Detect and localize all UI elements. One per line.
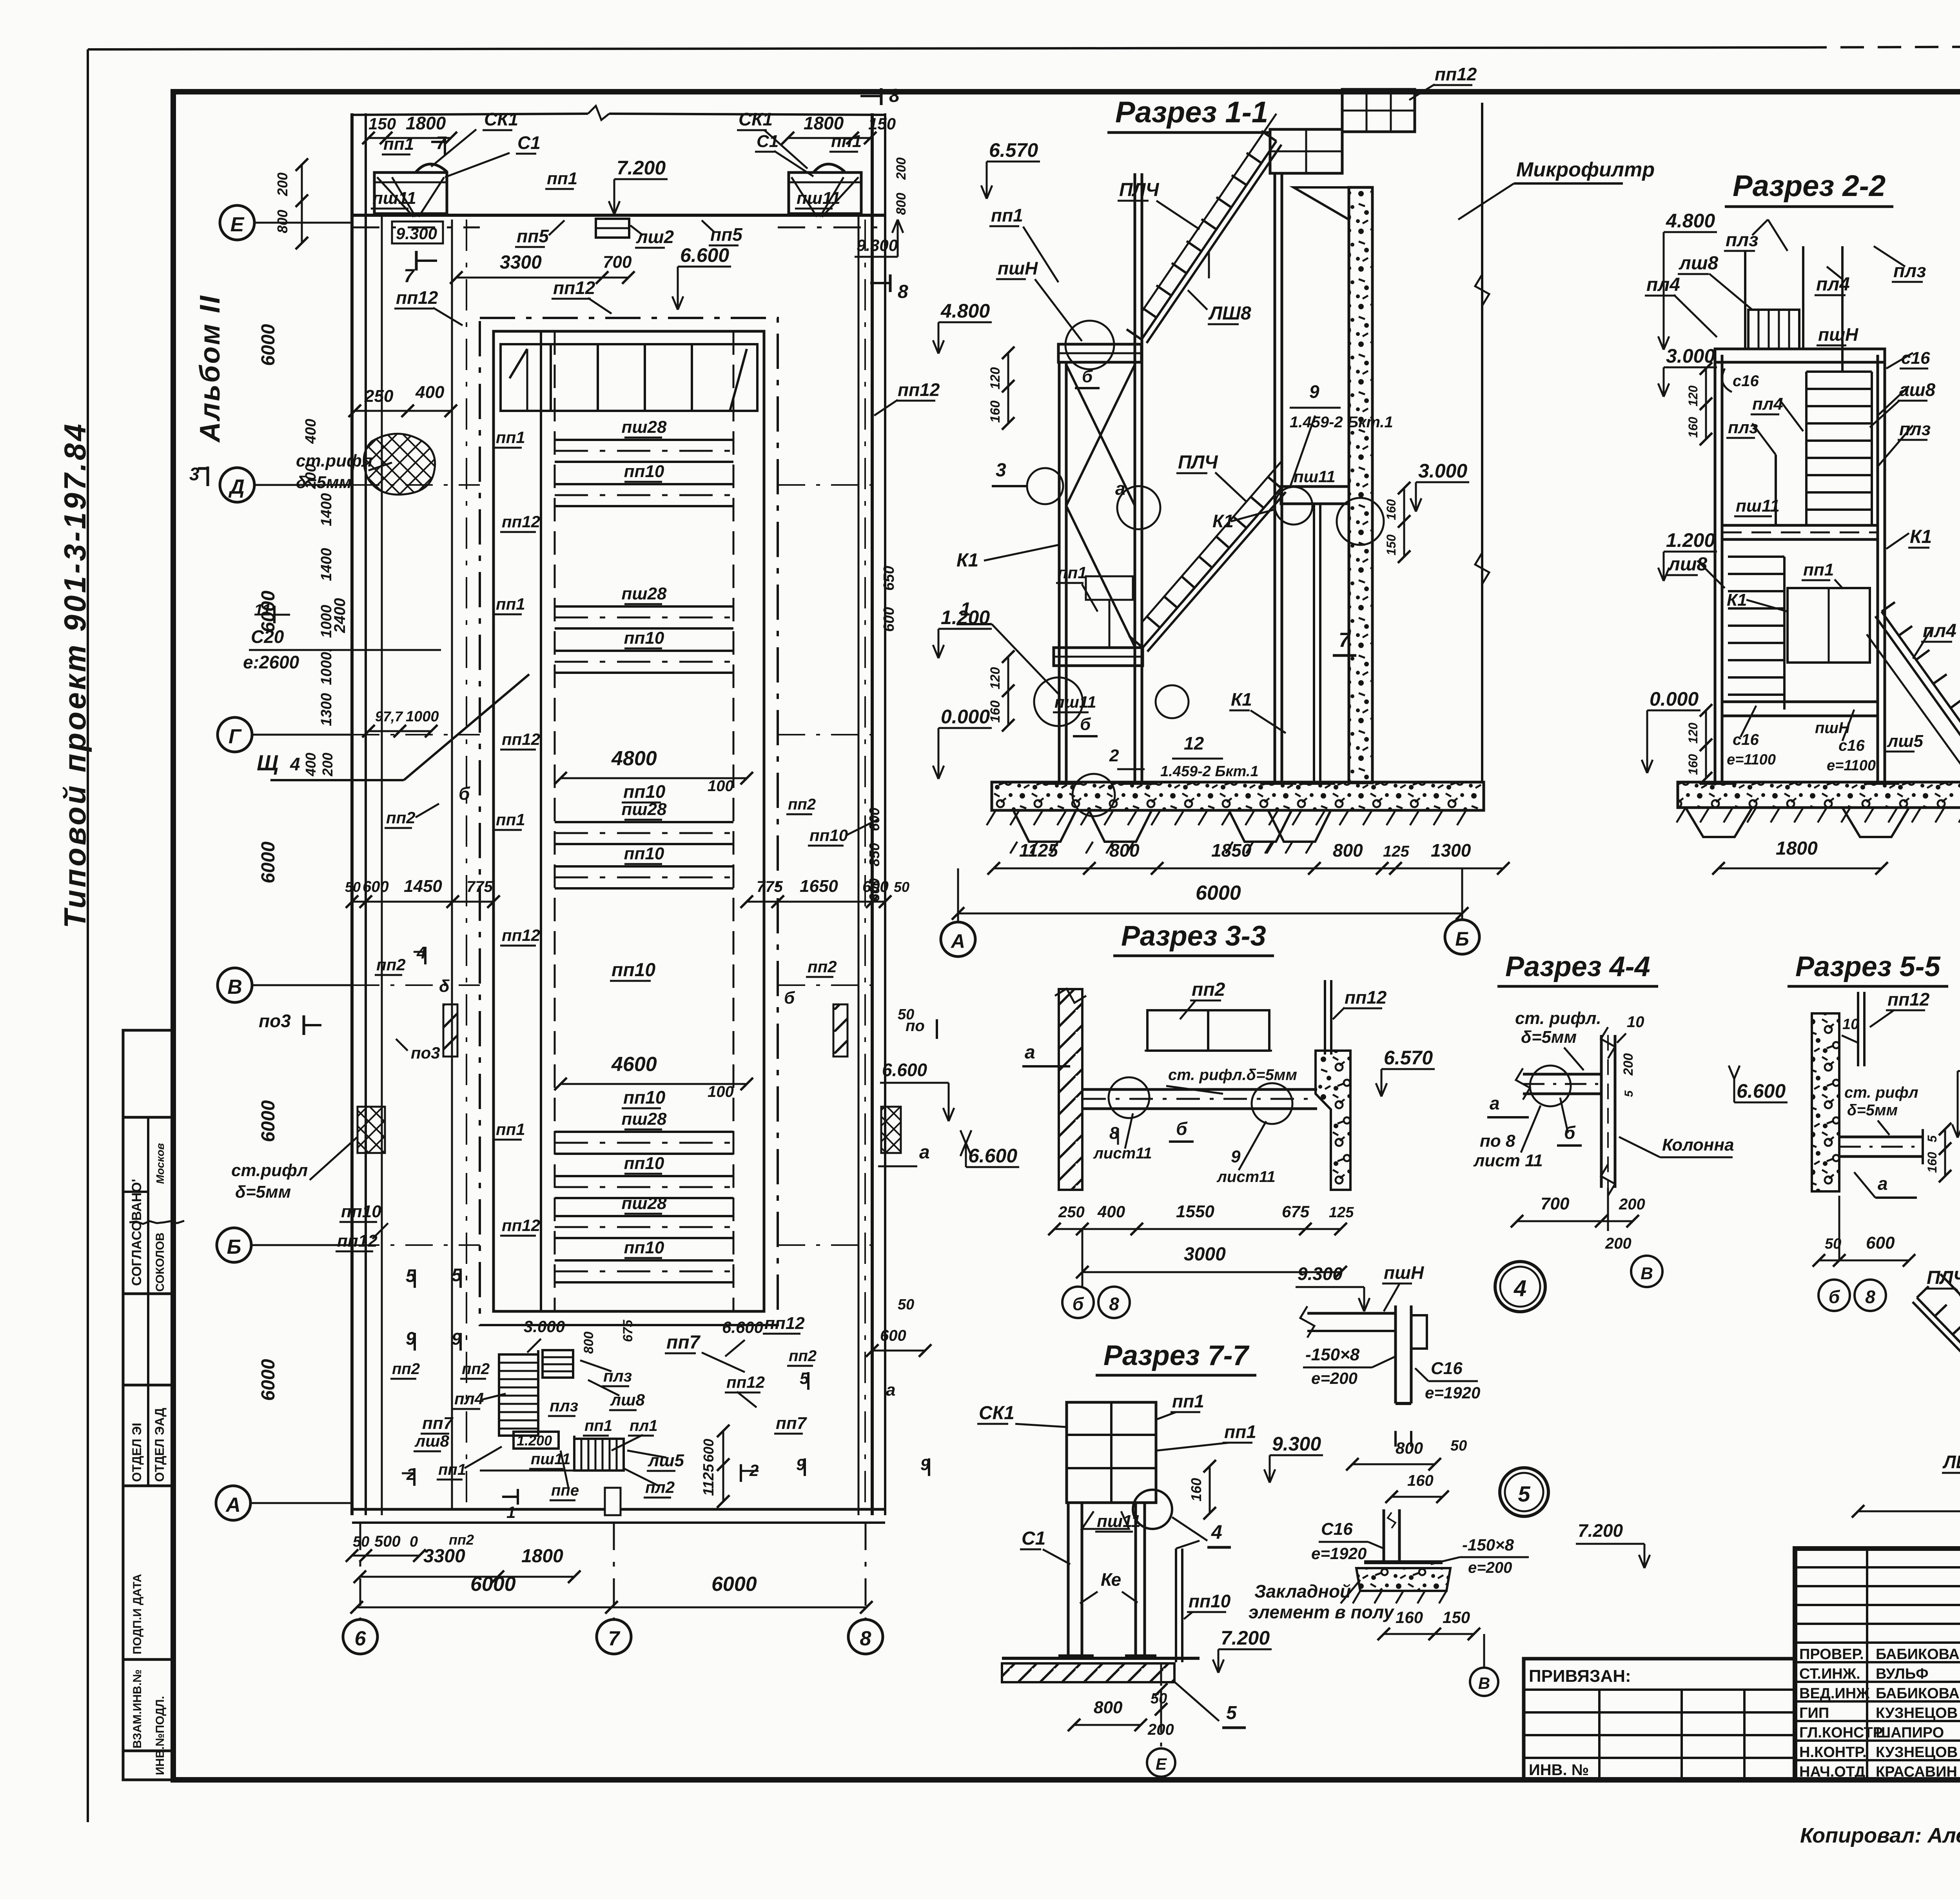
svg-text:e=1100: e=1100: [1727, 752, 1776, 768]
svg-text:1650: 1650: [800, 877, 838, 896]
svg-text:пп1: пп1: [831, 132, 862, 151]
section 7-7: right columns: [1134, 1503, 1137, 1658]
section 5-5: beam to right: [1839, 1136, 1923, 1138]
plan: grid letter circle Е: [220, 205, 254, 240]
svg-text:e=1920: e=1920: [1311, 1544, 1367, 1563]
plan: beam пш28 at y2915: [555, 1131, 733, 1133]
svg-text:лист11: лист11: [1093, 1145, 1152, 1162]
svg-text:пш11: пш11: [1294, 467, 1336, 486]
section 1-1: foundation pits: [1013, 810, 1076, 842]
svg-text:9: 9: [1309, 381, 1319, 402]
svg-text:δ=5мм: δ=5мм: [1847, 1102, 1898, 1119]
svg-text:6.600: 6.600: [968, 1145, 1017, 1167]
svg-text:7.200: 7.200: [617, 157, 666, 179]
svg-text:лш8: лш8: [1679, 253, 1719, 274]
section 2-2: top landing beam: [1715, 349, 1885, 362]
svg-text:Разрез 5-5: Разрез 5-5: [1795, 951, 1941, 982]
plan: grid letter circle В: [218, 968, 252, 1002]
svg-text:плз: плз: [550, 1396, 578, 1415]
svg-text:б: б: [1080, 715, 1091, 734]
svg-text:δ=5мм: δ=5мм: [235, 1182, 291, 1202]
plan: basin outer dash-dot rectangle: [480, 318, 778, 1325]
svg-text:50: 50: [894, 879, 909, 895]
svg-text:9.300: 9.300: [396, 224, 437, 243]
svg-text:6000: 6000: [470, 1573, 516, 1596]
svg-text:а: а: [1878, 1173, 1888, 1194]
svg-text:лш5: лш5: [1887, 732, 1923, 751]
svg-text:Москов: Москов: [154, 1143, 166, 1184]
svg-text:5: 5: [1518, 1481, 1530, 1506]
svg-text:пп10: пп10: [809, 826, 848, 844]
svg-text:Разрез 1-1: Разрез 1-1: [1115, 96, 1268, 129]
svg-text:400: 400: [415, 383, 445, 402]
svg-text:9.300: 9.300: [1272, 1433, 1321, 1455]
svg-text:ИНВ.№ПОДЛ.: ИНВ.№ПОДЛ.: [154, 1696, 167, 1775]
svg-text:пп12: пп12: [337, 1231, 377, 1251]
svg-text:600: 600: [880, 1327, 906, 1344]
svg-text:СК1: СК1: [979, 1403, 1014, 1423]
svg-text:пп2: пп2: [449, 1532, 474, 1548]
svg-text:775: 775: [466, 878, 493, 895]
svg-text:6000: 6000: [1196, 882, 1241, 904]
svg-text:а: а: [1025, 1042, 1035, 1063]
svg-text:4: 4: [1514, 1276, 1526, 1301]
svg-text:8: 8: [1865, 1287, 1875, 1307]
section 3-3: пп2 box above: [1147, 1010, 1269, 1051]
section 1-1: landing 1.200: [1054, 648, 1143, 666]
svg-text:600: 600: [881, 607, 897, 632]
svg-text:б: б: [784, 988, 795, 1008]
svg-text:Альбом II: Альбом II: [194, 294, 226, 443]
title block signature table: [1793, 1549, 1797, 1780]
plan: left wall (axis 6 side): [350, 113, 354, 1515]
svg-text:4: 4: [1211, 1521, 1222, 1543]
svg-text:пп7: пп7: [776, 1414, 808, 1433]
section 2-2: upper-left platform ПЛЗ: [1748, 310, 1799, 349]
svg-text:160: 160: [1396, 1608, 1423, 1627]
svg-text:К1: К1: [956, 550, 978, 571]
svg-text:пп12: пп12: [764, 1314, 805, 1333]
svg-text:160: 160: [1407, 1472, 1434, 1489]
svg-text:б: б: [459, 783, 470, 804]
svg-text:СОГЛАСОВАНО': СОГЛАСОВАНО': [129, 1179, 144, 1286]
svg-text:3.000: 3.000: [1418, 460, 1467, 482]
svg-text:e:2600: e:2600: [243, 652, 299, 672]
section 2-2: right column line: [1877, 355, 1879, 782]
svg-text:пп2: пп2: [462, 1360, 490, 1378]
svg-text:5: 5: [1622, 1090, 1635, 1097]
svg-text:В: В: [1641, 1264, 1653, 1283]
svg-text:150: 150: [868, 114, 896, 133]
section 1-1: mid flight to 3.000 landing: [1143, 488, 1281, 648]
svg-text:пп1: пп1: [1058, 563, 1087, 582]
svg-text:пш11: пш11: [1736, 496, 1780, 516]
svg-text:пп12: пп12: [396, 287, 438, 308]
plan: landing 1.200 box: [514, 1432, 559, 1449]
svg-text:ПЛЧ: ПЛЧ: [1178, 452, 1218, 473]
svg-text:800: 800: [1333, 840, 1363, 861]
section 1-1: top platform пп12 over wall: [1342, 89, 1415, 132]
section 3-3: joints circles: [1109, 1077, 1149, 1118]
svg-text:200: 200: [303, 464, 319, 489]
svg-text:В: В: [1478, 1674, 1490, 1692]
svg-text:С1: С1: [1022, 1528, 1045, 1549]
svg-text:6.600: 6.600: [722, 1318, 763, 1336]
svg-text:3300: 3300: [500, 252, 542, 273]
svg-text:пп2: пп2: [386, 808, 416, 827]
svg-text:97,7: 97,7: [375, 708, 403, 724]
svg-text:9.300: 9.300: [1298, 1264, 1343, 1284]
svg-text:6.600: 6.600: [882, 1060, 927, 1080]
svg-text:1450: 1450: [404, 877, 442, 896]
svg-text:4.800: 4.800: [1666, 210, 1715, 232]
svg-text:с16: с16: [1733, 731, 1759, 748]
svg-text:СК1: СК1: [739, 109, 773, 129]
svg-text:1850: 1850: [1211, 840, 1252, 861]
plan: bottom staircase area: [480, 1324, 778, 1326]
plan: stair flight ЛШ5 treads: [574, 1439, 624, 1471]
svg-text:700: 700: [1541, 1194, 1570, 1213]
svg-text:50: 50: [345, 879, 361, 895]
plan: basin inner wall rectangle: [494, 331, 764, 1311]
section 1-1: landing 3.000 at wall: [1281, 487, 1349, 504]
svg-text:1300: 1300: [318, 693, 335, 726]
svg-text:e=200: e=200: [1311, 1369, 1357, 1387]
section 1-1: base plates: [1045, 781, 1081, 785]
detail 5: axis circle В: [1470, 1668, 1498, 1696]
svg-text:пш11: пш11: [797, 189, 840, 208]
privyazan box: [1524, 1659, 1795, 1780]
svg-text:Г: Г: [229, 725, 242, 748]
svg-text:а: а: [919, 1142, 930, 1163]
section 3-3: right wall sloped concrete: [1316, 1051, 1350, 1190]
section 2-2: left column line: [1714, 355, 1717, 782]
plan: grid letter circle Д: [220, 468, 254, 502]
svg-text:элемент в полу: элемент в полу: [1249, 1602, 1395, 1622]
svg-text:Разрез 3-3: Разрез 3-3: [1121, 920, 1266, 952]
plan: grid letter circle А: [216, 1486, 250, 1520]
svg-text:125: 125: [1329, 1204, 1354, 1221]
svg-text:ИНВ. №: ИНВ. №: [1529, 1761, 1589, 1779]
svg-text:3.000: 3.000: [524, 1317, 565, 1336]
section 7-7: left columns: [1067, 1503, 1070, 1658]
plan: dim 4600 lower: [561, 1083, 747, 1085]
svg-text:б: б: [1073, 1294, 1084, 1314]
svg-text:пл4: пл4: [1646, 274, 1680, 295]
plan: marker 8 right top: [880, 88, 883, 105]
svg-text:4.800: 4.800: [940, 300, 990, 322]
svg-text:пп12: пп12: [502, 512, 540, 531]
detail 4: beam at 9.300: [1307, 1312, 1396, 1315]
svg-text:0.000: 0.000: [941, 706, 990, 728]
svg-text:А: А: [950, 930, 965, 952]
svg-text:800: 800: [274, 210, 290, 233]
svg-text:5: 5: [1226, 1703, 1237, 1723]
svg-text:1550: 1550: [1176, 1202, 1214, 1221]
svg-text:А: А: [225, 1494, 241, 1516]
section 3-3: floor beam: [1082, 1088, 1317, 1091]
svg-text:50: 50: [1450, 1438, 1467, 1454]
svg-text:пл4: пл4: [454, 1389, 484, 1408]
svg-text:7: 7: [608, 1627, 621, 1650]
svg-text:6000: 6000: [258, 1100, 279, 1142]
plan: beam пп10 at y1688: [555, 650, 733, 652]
svg-text:пп10: пп10: [624, 1154, 664, 1173]
svg-text:7: 7: [404, 266, 415, 287]
svg-text:120: 120: [988, 367, 1003, 390]
plan: corridor centerline left: [466, 220, 467, 1509]
svg-text:С16: С16: [1431, 1359, 1463, 1378]
plan: basin window band top: [501, 344, 757, 411]
svg-text:ст.рифл: ст.рифл: [231, 1161, 308, 1180]
svg-text:650: 650: [881, 566, 897, 590]
svg-text:пп7: пп7: [666, 1332, 701, 1353]
plan: inner corridor wall line: [451, 220, 453, 1509]
svg-text:160: 160: [1686, 417, 1700, 438]
section 4-4: column: [1600, 1035, 1603, 1188]
svg-text:пшН: пшН: [1818, 324, 1858, 345]
svg-text:850: 850: [866, 843, 882, 866]
svg-text:ВЕД.ИНЖ: ВЕД.ИНЖ: [1799, 1685, 1870, 1702]
section 1-1: right concrete wall: [1349, 187, 1372, 783]
svg-text:пп10: пп10: [624, 1238, 664, 1257]
svg-text:Б: Б: [1455, 928, 1469, 950]
svg-text:пл4: пл4: [1816, 274, 1850, 295]
svg-text:7: 7: [1339, 629, 1351, 652]
svg-text:пп10: пп10: [623, 781, 666, 802]
svg-text:1: 1: [506, 1503, 515, 1521]
svg-text:1000: 1000: [406, 708, 439, 725]
svg-text:пп1: пп1: [496, 428, 525, 447]
svg-text:1.200: 1.200: [1666, 529, 1715, 551]
plan: lift opening лш2 at top: [596, 219, 629, 238]
svg-text:ПЛЧ: ПЛЧ: [1927, 1267, 1960, 1288]
svg-text:4600: 4600: [611, 1053, 657, 1076]
svg-text:пп1: пп1: [1803, 560, 1834, 579]
svg-text:1000.: 1000.: [318, 648, 335, 685]
svg-text:600: 600: [701, 1439, 717, 1462]
section 2-2: lowest flight лш5 to ground: [1882, 612, 1960, 780]
svg-text:пп12: пп12: [502, 926, 540, 944]
stamp column boxes: [123, 1030, 173, 1780]
plan: stair separation walls: [537, 1350, 539, 1436]
svg-text:с16: с16: [1733, 372, 1759, 390]
svg-text:пп10: пп10: [624, 462, 664, 481]
svg-text:пл4: пл4: [1752, 394, 1783, 414]
svg-text:400: 400: [1097, 1202, 1125, 1221]
svg-text:пп12: пп12: [502, 1216, 540, 1235]
svg-text:Типовой проект 901-3-197.84: Типовой проект 901-3-197.84: [58, 421, 92, 928]
section 1-1: column K1 mid: [1134, 173, 1136, 782]
svg-text:по 8: по 8: [1480, 1131, 1515, 1151]
section 7-7: пп10 angle at right: [1175, 1549, 1177, 1662]
svg-text:200: 200: [319, 753, 336, 777]
svg-text:Закладной: Закладной: [1254, 1581, 1351, 1601]
svg-text:КУЗНЕЦОВ: КУЗНЕЦОВ: [1876, 1705, 1958, 1721]
plan: axis circles 6 7 8: [359, 1523, 361, 1618]
sheet outer border left: [87, 49, 89, 1822]
svg-text:200: 200: [894, 158, 909, 180]
svg-text:δ=5мм: δ=5мм: [1521, 1028, 1577, 1047]
svg-text:1800: 1800: [804, 113, 844, 133]
svg-text:К1: К1: [1212, 511, 1234, 531]
plan: bottom wall double line: [352, 1508, 885, 1511]
svg-text:пп10: пп10: [624, 844, 664, 863]
svg-text:ст. рифл.δ=5мм: ст. рифл.δ=5мм: [1168, 1066, 1297, 1084]
svg-text:400: 400: [303, 753, 319, 777]
detail 4: lower column run to detail 5: [1394, 1431, 1397, 1447]
section 2-2: base plates: [1701, 781, 1737, 785]
svg-text:ЛШ8: ЛШ8: [1208, 303, 1251, 324]
plan: marker 7 below left box: [415, 251, 418, 271]
section 1-1: upper platform 6.570: [1270, 129, 1342, 173]
svg-text:6000: 6000: [711, 1573, 757, 1596]
svg-text:БАБИКОВА: БАБИКОВА: [1876, 1646, 1960, 1663]
svg-text:ОТДЕЛ ЭІ: ОТДЕЛ ЭІ: [130, 1423, 144, 1482]
svg-text:СОКОЛОВ: СОКОЛОВ: [154, 1233, 167, 1292]
svg-text:800: 800: [1109, 840, 1140, 861]
plan: section marker 3 near Д: [207, 467, 209, 486]
svg-text:600: 600: [363, 878, 389, 895]
svg-text:ПРИВЯЗАН:: ПРИВЯЗАН:: [1529, 1667, 1631, 1686]
svg-text:800: 800: [581, 1332, 596, 1354]
svg-text:ГИП: ГИП: [1799, 1705, 1829, 1721]
section 2-2: lower flight treads: [1728, 556, 1784, 558]
svg-text:ЛШВ: ЛШВ: [1942, 1452, 1960, 1472]
svg-text:0: 0: [410, 1534, 418, 1550]
svg-text:Копировал: Алешикова: Копировал: Алешикова: [1800, 1824, 1960, 1847]
svg-text:С20: С20: [251, 626, 284, 647]
svg-text:пп1: пп1: [496, 595, 525, 613]
svg-text:пп2: пп2: [788, 796, 816, 813]
svg-text:160: 160: [1188, 1478, 1204, 1501]
section 2-2: lower landing: [1722, 702, 1878, 716]
svg-text:по3: по3: [259, 1011, 291, 1031]
svg-text:Е: Е: [1156, 1755, 1167, 1773]
svg-text:1: 1: [960, 599, 971, 620]
svg-text:пп7: пп7: [422, 1414, 454, 1433]
svg-text:пп10: пп10: [1189, 1591, 1231, 1611]
section 5-5: пп12 post: [1857, 992, 1859, 1066]
plan: stair flight ПЛ4 treads (plan view): [499, 1354, 538, 1436]
svg-text:пш28: пш28: [622, 1194, 667, 1213]
detail 5: base plate and floor: [1364, 1560, 1443, 1564]
svg-text:600: 600: [866, 808, 882, 831]
svg-text:пп10: пп10: [341, 1202, 381, 1221]
plan: beam пш28 at y2125: [555, 821, 733, 823]
svg-text:775: 775: [757, 878, 783, 895]
svg-text:1800: 1800: [521, 1546, 563, 1567]
svg-text:200: 200: [1619, 1196, 1645, 1213]
svg-text:2: 2: [1109, 746, 1119, 765]
detail node 5 circle: [1500, 1468, 1548, 1516]
svg-text:а: а: [1490, 1093, 1500, 1113]
svg-text:12: 12: [1184, 733, 1204, 753]
svg-text:120: 120: [1686, 385, 1700, 407]
svg-text:НАЧ.ОТД.: НАЧ.ОТД.: [1799, 1764, 1869, 1780]
svg-text:ппе: ппе: [551, 1482, 579, 1499]
plan: corridor hatch patches left wall: [364, 434, 435, 494]
svg-text:пп1: пп1: [438, 1461, 466, 1478]
svg-text:-150×8: -150×8: [1462, 1536, 1514, 1554]
svg-text:плз: плз: [1893, 261, 1926, 281]
section 2-2: mid landing: [1722, 525, 1878, 539]
svg-text:пп1: пп1: [1172, 1391, 1204, 1411]
svg-text:пшН: пшН: [998, 258, 1038, 278]
section 1-1: lower post under 3.000 landing: [1313, 504, 1315, 782]
svg-text:5: 5: [1925, 1135, 1939, 1142]
svg-text:пп1: пп1: [496, 1120, 525, 1138]
svg-text:пш11: пш11: [372, 189, 416, 208]
svg-text:9: 9: [1231, 1147, 1241, 1166]
svg-text:6.600: 6.600: [1737, 1080, 1786, 1102]
svg-text:К1: К1: [1727, 590, 1747, 610]
svg-text:150: 150: [1443, 1608, 1470, 1627]
svg-text:6000: 6000: [258, 1359, 279, 1401]
svg-text:150: 150: [368, 114, 396, 133]
plan: left column strip of basin: [540, 331, 542, 1311]
svg-text:6000: 6000: [258, 841, 279, 883]
svg-text:ПЛЧ: ПЛЧ: [1119, 180, 1160, 200]
plan: grid letter circle Г: [218, 717, 252, 752]
svg-text:250: 250: [1058, 1204, 1085, 1221]
svg-text:пп1: пп1: [1224, 1422, 1256, 1442]
plan: top edge of upper platform: [352, 114, 588, 115]
svg-text:лш8: лш8: [414, 1432, 449, 1450]
svg-text:160: 160: [988, 701, 1003, 723]
section 7-7: monorail box: [1067, 1402, 1156, 1503]
svg-text:пп12: пп12: [898, 379, 940, 400]
svg-text:С1: С1: [517, 133, 541, 153]
svg-text:пп2: пп2: [392, 1360, 420, 1378]
svg-text:3: 3: [996, 460, 1006, 481]
svg-text:50: 50: [898, 1296, 914, 1313]
plan: beam пп10 at y3243: [555, 1259, 733, 1262]
plan: right wall (axis 8 side): [871, 113, 874, 1515]
svg-text:СТ.ИНЖ.: СТ.ИНЖ.: [1799, 1666, 1860, 1682]
detail 6: stair stringer ПЛЧ: [1917, 1298, 1960, 1427]
svg-text:10: 10: [1842, 1016, 1859, 1033]
svg-text:пп2: пп2: [1192, 979, 1225, 1000]
svg-text:100: 100: [708, 777, 734, 795]
svg-text:1125: 1125: [1019, 840, 1058, 861]
svg-text:700: 700: [603, 252, 632, 272]
svg-text:пп2: пп2: [808, 957, 837, 976]
svg-text:пп12: пп12: [726, 1373, 765, 1391]
svg-text:пп10: пп10: [624, 628, 664, 648]
svg-text:ПРОВЕР.: ПРОВЕР.: [1799, 1646, 1864, 1663]
svg-text:БАБИКОВА: БАБИКОВА: [1876, 1685, 1960, 1702]
svg-text:2400: 2400: [331, 598, 348, 634]
svg-text:а: а: [1115, 478, 1125, 499]
svg-text:пшН: пшН: [1384, 1262, 1424, 1283]
svg-text:Н.КОНТР.: Н.КОНТР.: [1799, 1744, 1867, 1761]
section 1-1: braces between columns: [1066, 365, 1135, 506]
plan: stair upper landing box: [543, 1350, 573, 1378]
plan: beam пп10 at y1263: [555, 483, 733, 485]
svg-text:e=1100: e=1100: [1827, 757, 1876, 774]
svg-text:1125: 1125: [701, 1463, 717, 1496]
svg-text:пш28: пш28: [622, 418, 667, 437]
plan: top-left monorail box СК1: [374, 172, 447, 214]
section 2-2: upper flight treads (вид сбоку): [1806, 370, 1872, 373]
plan: floor line at 9.300 strip: [352, 214, 885, 217]
section 4-4: beam to left: [1523, 1073, 1601, 1076]
plan: grid leader lines: [254, 222, 352, 224]
section 3-3: пп12 post: [1324, 980, 1326, 1055]
svg-text:0.000: 0.000: [1650, 688, 1699, 710]
section 1-1: upper flight railing: [1142, 114, 1276, 312]
